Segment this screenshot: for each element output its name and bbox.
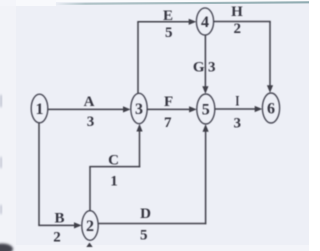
svg-text:5: 5 — [202, 102, 210, 119]
bottom light strip — [0, 245, 309, 251]
wire G: 4 down to 5 — [204, 35, 206, 88]
svg-text:5: 5 — [165, 25, 173, 41]
svg-text:C: C — [108, 153, 119, 169]
node 5 — [197, 94, 215, 124]
arrowhead F — [189, 106, 197, 112]
arrowhead C — [136, 124, 142, 132]
svg-text:F: F — [164, 94, 173, 110]
svg-text:4: 4 — [201, 14, 209, 31]
top white band — [0, 0, 309, 2]
svg-text:D: D — [140, 206, 151, 222]
svg-text:5: 5 — [140, 228, 148, 244]
svg-text:G: G — [193, 60, 205, 76]
svg-text:6: 6 — [267, 101, 275, 118]
wire F: 3 to 5 — [147, 108, 190, 110]
bottom-left corner smudge — [0, 244, 13, 251]
svg-text:H: H — [231, 4, 243, 20]
svg-text:3: 3 — [234, 116, 242, 132]
node 3 — [131, 93, 147, 123]
wire C horizontal — [89, 166, 140, 168]
left light strip — [0, 0, 16, 251]
node 6 — [262, 93, 279, 123]
wire C vertical to 3 — [139, 129, 141, 167]
arrowhead H — [267, 85, 273, 93]
svg-text:1: 1 — [36, 101, 44, 118]
wire I: 5 to 6 — [215, 108, 256, 110]
wire B vertical: 1 down — [38, 123, 40, 226]
wire B horizontal: to 2 — [38, 224, 75, 226]
svg-text:1: 1 — [110, 174, 118, 190]
left-edge scan dash 1 — [0, 95, 2, 107]
node 2 — [82, 211, 98, 241]
svg-text:3: 3 — [208, 60, 216, 76]
left-edge scan dash 2 — [0, 157, 2, 168]
arrowhead E — [189, 19, 197, 25]
svg-text:A: A — [84, 94, 95, 110]
svg-text:3: 3 — [87, 114, 95, 130]
wire D vertical up to 5 — [205, 129, 207, 224]
arrowhead I — [255, 106, 263, 112]
svg-text:I: I — [235, 94, 239, 110]
svg-text:B: B — [54, 210, 64, 226]
arrowhead G — [202, 86, 208, 94]
svg-text:2: 2 — [233, 21, 241, 37]
left-edge scan dash 3 — [0, 205, 2, 214]
arrowhead B — [74, 222, 82, 228]
wire C vertical from 2 — [89, 167, 91, 211]
stray mark below node 2 — [86, 243, 92, 248]
svg-text:E: E — [163, 8, 173, 24]
arrowhead A — [123, 106, 131, 112]
wire H horizontal from 4 — [214, 21, 271, 23]
node 4 — [196, 8, 213, 35]
wire A: 1 to 3 — [48, 108, 124, 110]
teal scanner line top — [55, 1, 309, 5]
svg-text:3: 3 — [135, 101, 143, 118]
svg-text:2: 2 — [86, 218, 94, 235]
wire D horizontal: 2 right — [98, 223, 206, 225]
svg-text:7: 7 — [164, 115, 172, 131]
node 1 — [31, 94, 48, 123]
wire E vertical from 3 — [137, 22, 139, 94]
wire E horizontal to 4 — [137, 21, 189, 23]
svg-text:2: 2 — [53, 230, 61, 246]
arrowhead D — [203, 124, 209, 132]
wire H vertical down to 6 — [269, 22, 271, 88]
